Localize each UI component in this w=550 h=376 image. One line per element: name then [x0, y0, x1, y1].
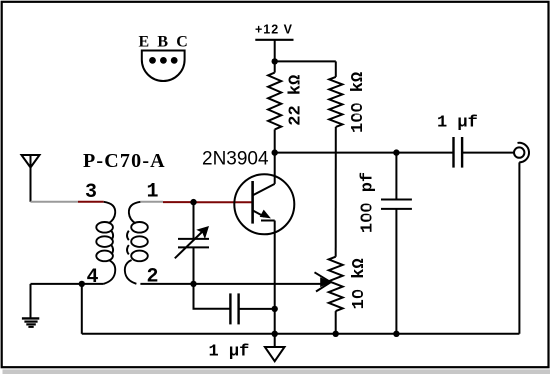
- EBC package symbol: [142, 51, 185, 81]
- junction pin4/drop: [79, 281, 85, 287]
- wire supply branch: [275, 60, 336, 62]
- ground (earth): [22, 284, 39, 327]
- package dot C: [171, 57, 178, 64]
- capacitor C2 1uf: [230, 293, 238, 324]
- svg-text:2: 2: [147, 266, 159, 289]
- wire node down to C2: [194, 284, 231, 309]
- collector rail wire: [275, 152, 454, 154]
- potentiometer R3 10k: [329, 257, 343, 334]
- svg-text:2N3904: 2N3904: [202, 148, 269, 169]
- junction C3/rail: [393, 331, 399, 337]
- label 10 kOhm: [350, 258, 369, 309]
- wiper wire: [194, 283, 322, 285]
- resistor R2 100k: [329, 61, 342, 256]
- variable capacitor C1: [175, 202, 209, 284]
- shadow strip: [3, 369, 550, 374]
- resistor R1 22k: [268, 61, 281, 152]
- svg-text:4: 4: [87, 266, 99, 289]
- wire drop to bottom rail: [81, 284, 83, 334]
- junction emitter/C2: [272, 306, 278, 312]
- svg-text:P-C70-A: P-C70-A: [83, 150, 166, 172]
- wire pin 1 (grey): [140, 201, 163, 203]
- junction node base: [190, 199, 196, 205]
- wire pin 1 to node (dark red): [163, 201, 194, 203]
- svg-text:+12 V: +12 V: [255, 23, 293, 37]
- bottom rail wire: [82, 333, 520, 335]
- transistor Q1 2N3904: [234, 174, 294, 234]
- junction node C1 bottom: [190, 281, 196, 287]
- svg-text:1: 1: [147, 181, 159, 204]
- svg-text:1 μf: 1 μf: [209, 342, 250, 361]
- junction collector node: [272, 149, 278, 155]
- svg-text:22 kΩ: 22 kΩ: [287, 75, 306, 126]
- output jack J1: [514, 143, 529, 163]
- ground triangle: [265, 334, 285, 361]
- emitter wire down: [274, 221, 276, 334]
- package dot E: [149, 57, 156, 64]
- wire antenna to pin 3 (grey): [31, 201, 79, 203]
- wire pin 4: [31, 283, 104, 285]
- supply stem: [274, 40, 276, 62]
- wire to pin 3 (dark red): [78, 201, 104, 203]
- junction emitter/rail: [272, 331, 278, 337]
- junction supply: [272, 58, 278, 64]
- wire C2 to emitter line: [239, 308, 275, 310]
- junction pot/rail: [333, 331, 339, 337]
- wire node to base (dark red): [194, 201, 253, 203]
- svg-text:1 μf: 1 μf: [437, 114, 478, 133]
- package dot B: [160, 57, 167, 64]
- svg-text:3: 3: [85, 181, 97, 204]
- antenna: [22, 155, 40, 202]
- transformer T1 secondary winding: [125, 202, 148, 284]
- capacitor C3 100pf: [381, 153, 412, 334]
- collector wire up: [274, 153, 276, 184]
- wire C4 to jack: [462, 152, 513, 154]
- wire jack down: [518, 162, 520, 333]
- label 100 kOhm: [349, 72, 368, 133]
- supply bar: [255, 39, 293, 41]
- svg-text:10 kΩ: 10 kΩ: [350, 258, 369, 309]
- label 100 pf: [358, 172, 377, 233]
- wiper arrow: [315, 272, 331, 282]
- svg-text:100 kΩ: 100 kΩ: [349, 72, 368, 133]
- junction collector/C3: [393, 149, 399, 155]
- svg-text:E B C: E B C: [139, 33, 190, 50]
- svg-text:100 pf: 100 pf: [358, 172, 377, 233]
- transformer T1 primary winding: [96, 202, 115, 284]
- capacitor C4 1uf top: [454, 137, 463, 168]
- wire pin 2: [140, 283, 193, 285]
